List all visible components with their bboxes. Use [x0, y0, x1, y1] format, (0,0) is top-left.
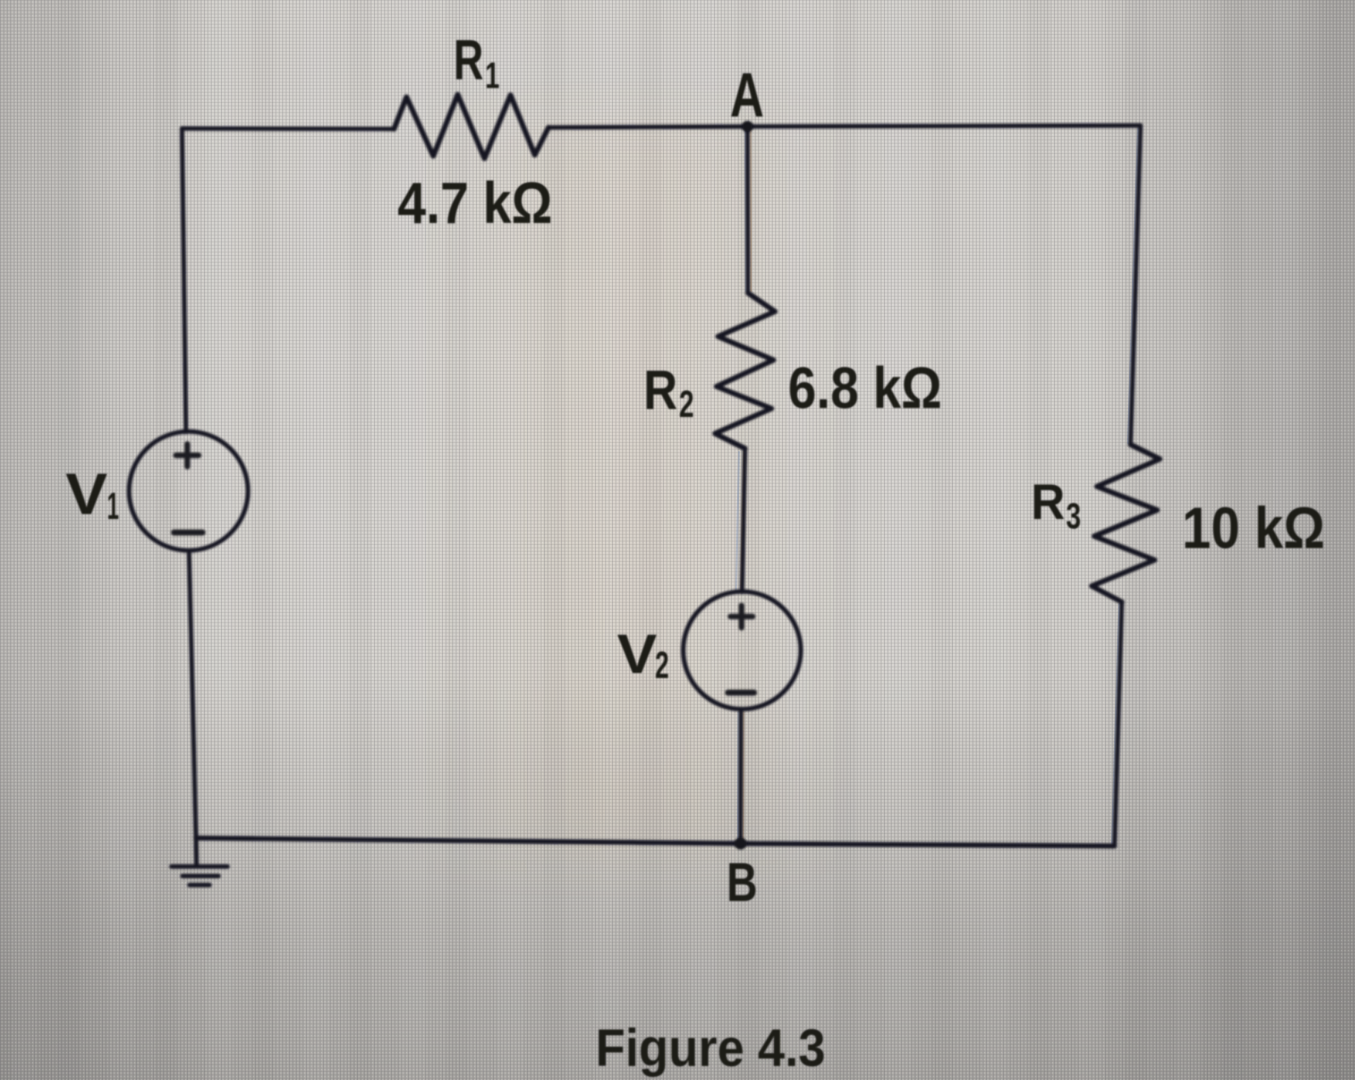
- label R1: [454, 29, 500, 97]
- svg-text:R: R: [644, 358, 678, 421]
- label R3: [1031, 474, 1081, 537]
- wire left branch upper: [182, 129, 186, 433]
- wire R2 to V2: [742, 449, 745, 593]
- wire top-right segment: [549, 126, 1141, 128]
- V2 minus sign: [728, 690, 754, 696]
- svg-text:V: V: [617, 622, 657, 685]
- label R2: [644, 358, 695, 426]
- label V1: [66, 462, 120, 528]
- node A junction dot: [742, 121, 753, 132]
- svg-text:2: 2: [655, 645, 669, 687]
- svg-text:10 kΩ: 10 kΩ: [1182, 496, 1325, 561]
- svg-text:B: B: [727, 851, 758, 913]
- svg-text:A: A: [730, 61, 764, 131]
- svg-text:3: 3: [1066, 496, 1081, 537]
- svg-text:V: V: [66, 462, 108, 527]
- voltage source V2: [683, 592, 801, 710]
- voltage source V1: [129, 432, 248, 551]
- wire right branch lower: [1115, 602, 1122, 846]
- wire right branch upper: [1131, 126, 1141, 445]
- svg-text:1: 1: [107, 486, 119, 528]
- svg-text:2: 2: [679, 384, 694, 426]
- svg-text:1: 1: [485, 55, 500, 96]
- V2 plus sign: [731, 606, 753, 628]
- node B junction dot: [735, 838, 747, 850]
- wire bottom segment: [196, 838, 1115, 846]
- wire top-left segment: [182, 126, 394, 131]
- resistor R2: [715, 293, 775, 449]
- wire V2 to node B: [738, 709, 743, 844]
- V1 plus sign: [176, 444, 199, 467]
- resistor R3: [1092, 445, 1160, 603]
- resistor R1: [394, 95, 549, 159]
- chromatic fringe on vertical wires: [736, 128, 1138, 844]
- V1 minus sign: [174, 530, 203, 536]
- svg-text:Figure 4.3: Figure 4.3: [596, 1019, 826, 1078]
- label V2: [617, 622, 669, 687]
- wire node A to R2: [745, 127, 750, 294]
- svg-text:6.8 kΩ: 6.8 kΩ: [788, 356, 942, 421]
- ground: [172, 838, 228, 885]
- svg-text:R: R: [454, 29, 484, 93]
- svg-text:R: R: [1031, 474, 1065, 530]
- svg-text:4.7 kΩ: 4.7 kΩ: [398, 171, 553, 236]
- wire left branch lower: [189, 551, 196, 838]
